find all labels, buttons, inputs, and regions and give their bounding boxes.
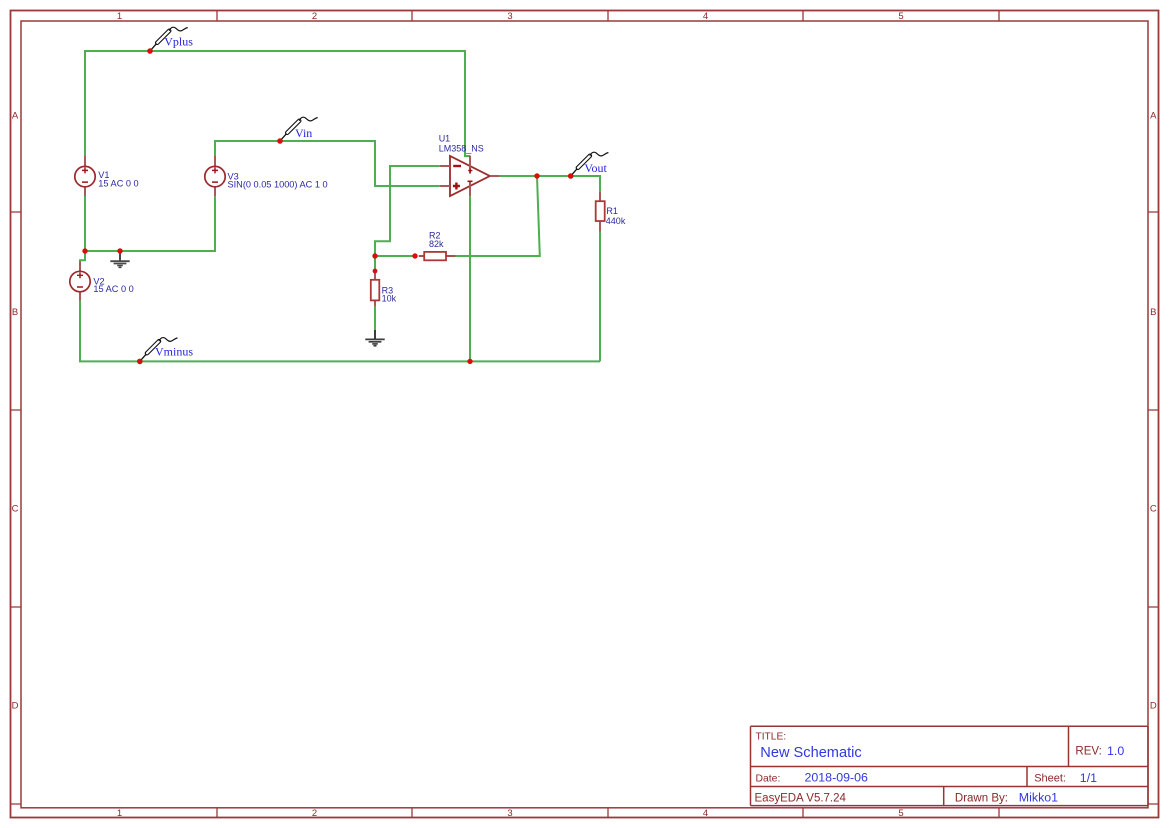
svg-text:Drawn By:: Drawn By: xyxy=(955,793,1008,805)
svg-text:U1: U1 xyxy=(439,133,451,143)
ruler numbers bottom xyxy=(117,808,904,819)
svg-text:1.0: 1.0 xyxy=(1107,744,1124,758)
resistor R2 value 82k xyxy=(419,230,456,260)
ruler letters left xyxy=(12,111,19,712)
wire R1 bottom to bottom rail xyxy=(599,232,601,362)
svg-text:Vout: Vout xyxy=(584,161,607,175)
svg-text:1: 1 xyxy=(117,808,122,819)
svg-text:B: B xyxy=(1150,307,1156,318)
svg-text:2: 2 xyxy=(312,11,317,22)
svg-text:New Schematic: New Schematic xyxy=(760,745,861,761)
non-inverting input plus mark xyxy=(453,183,460,190)
voltage source V3 xyxy=(205,156,328,196)
svg-text:C: C xyxy=(1150,503,1157,514)
voltage source V2 xyxy=(70,262,134,301)
svg-text:3: 3 xyxy=(507,11,512,22)
svg-text:2018-09-06: 2018-09-06 xyxy=(805,771,868,785)
svg-text:440k: 440k xyxy=(606,216,626,226)
wire V2 bottom + Vminus bottom rail xyxy=(80,301,600,362)
svg-text:82k: 82k xyxy=(429,239,444,249)
ruler letters right xyxy=(1150,111,1157,712)
svg-text:3: 3 xyxy=(507,808,512,819)
svg-text:A: A xyxy=(12,111,19,122)
voltage probe Vout xyxy=(568,152,608,179)
svg-text:1: 1 xyxy=(117,11,122,22)
ground (below R3) xyxy=(365,330,384,347)
V+ plus mark xyxy=(468,169,472,173)
wire node to R3 top xyxy=(374,256,376,271)
ground (at V1/V3 common node) xyxy=(110,251,129,268)
wire R2 right to feedback riser xyxy=(455,176,540,256)
svg-text:2: 2 xyxy=(312,808,317,819)
junction feedback node R2/R3 xyxy=(372,253,377,258)
voltage source V1 xyxy=(75,156,139,196)
resistor R3 value 10k xyxy=(371,271,397,306)
svg-text:R1: R1 xyxy=(606,206,618,216)
svg-text:LM358_NS: LM358_NS xyxy=(439,143,484,153)
junction op-amp V- at bottom rail xyxy=(467,359,472,364)
svg-text:15 AC 0 0: 15 AC 0 0 xyxy=(98,179,138,189)
svg-text:TITLE:: TITLE: xyxy=(756,732,787,743)
wire Vplus rail (V1 top to op-amp V+ pin) xyxy=(85,51,470,156)
voltage probe Vin xyxy=(277,117,318,144)
wire node to R2 left xyxy=(375,255,415,257)
wire Vin net (V3 top to op-amp non-inverting input) xyxy=(215,141,440,186)
junction R2 left pin xyxy=(412,253,417,258)
ruler numbers top xyxy=(117,11,904,22)
voltage probe Vminus xyxy=(137,338,193,365)
svg-text:5: 5 xyxy=(898,11,903,22)
op-amp U1 xyxy=(439,133,500,196)
wire inverting input to feedback node xyxy=(375,166,440,256)
svg-text:15 AC 0 0: 15 AC 0 0 xyxy=(93,284,133,294)
pin inverting input xyxy=(440,165,450,167)
junction output/feedback xyxy=(534,173,539,178)
svg-text:Vplus: Vplus xyxy=(164,35,193,49)
svg-text:1/1: 1/1 xyxy=(1080,771,1097,785)
wire R3 bottom to ground xyxy=(374,306,376,330)
V- minus mark xyxy=(468,180,473,182)
wire jog to V2 top xyxy=(80,251,85,262)
svg-text:SIN(0 0.05 1000) AC 1 0: SIN(0 0.05 1000) AC 1 0 xyxy=(228,180,328,190)
svg-text:Mikko1: Mikko1 xyxy=(1019,791,1058,805)
pin non-inverting input xyxy=(440,185,450,187)
junction V1 bottom node xyxy=(82,248,87,253)
svg-text:EasyEDA V5.7.24: EasyEDA V5.7.24 xyxy=(755,792,847,804)
svg-text:4: 4 xyxy=(703,11,708,22)
svg-text:Sheet:: Sheet: xyxy=(1034,773,1066,785)
svg-text:C: C xyxy=(12,503,19,514)
svg-text:B: B xyxy=(12,307,18,318)
resistor R1 value 440k xyxy=(596,192,626,232)
junction ground tap node xyxy=(117,248,122,253)
svg-text:Vminus: Vminus xyxy=(155,344,193,358)
junction R3 top pin xyxy=(373,269,378,274)
svg-text:Date:: Date: xyxy=(756,773,781,784)
pin output xyxy=(490,175,500,177)
wire V1 bottom to common node row xyxy=(85,196,215,251)
wire op-amp V- pin to bottom rail xyxy=(469,196,471,361)
svg-text:REV:: REV: xyxy=(1075,746,1101,758)
voltage probe Vplus xyxy=(147,27,193,54)
svg-text:4: 4 xyxy=(703,808,708,819)
svg-text:A: A xyxy=(1150,111,1157,122)
pin V+ xyxy=(469,156,471,174)
svg-text:5: 5 xyxy=(898,808,903,819)
svg-text:10k: 10k xyxy=(382,293,397,303)
svg-text:D: D xyxy=(1150,700,1157,711)
pin V- xyxy=(469,181,471,196)
svg-text:D: D xyxy=(12,700,19,711)
wire op-amp output to R1 top xyxy=(500,176,600,192)
title block xyxy=(751,726,1149,805)
svg-text:Vin: Vin xyxy=(295,126,312,140)
inverting input minus mark xyxy=(453,165,461,167)
